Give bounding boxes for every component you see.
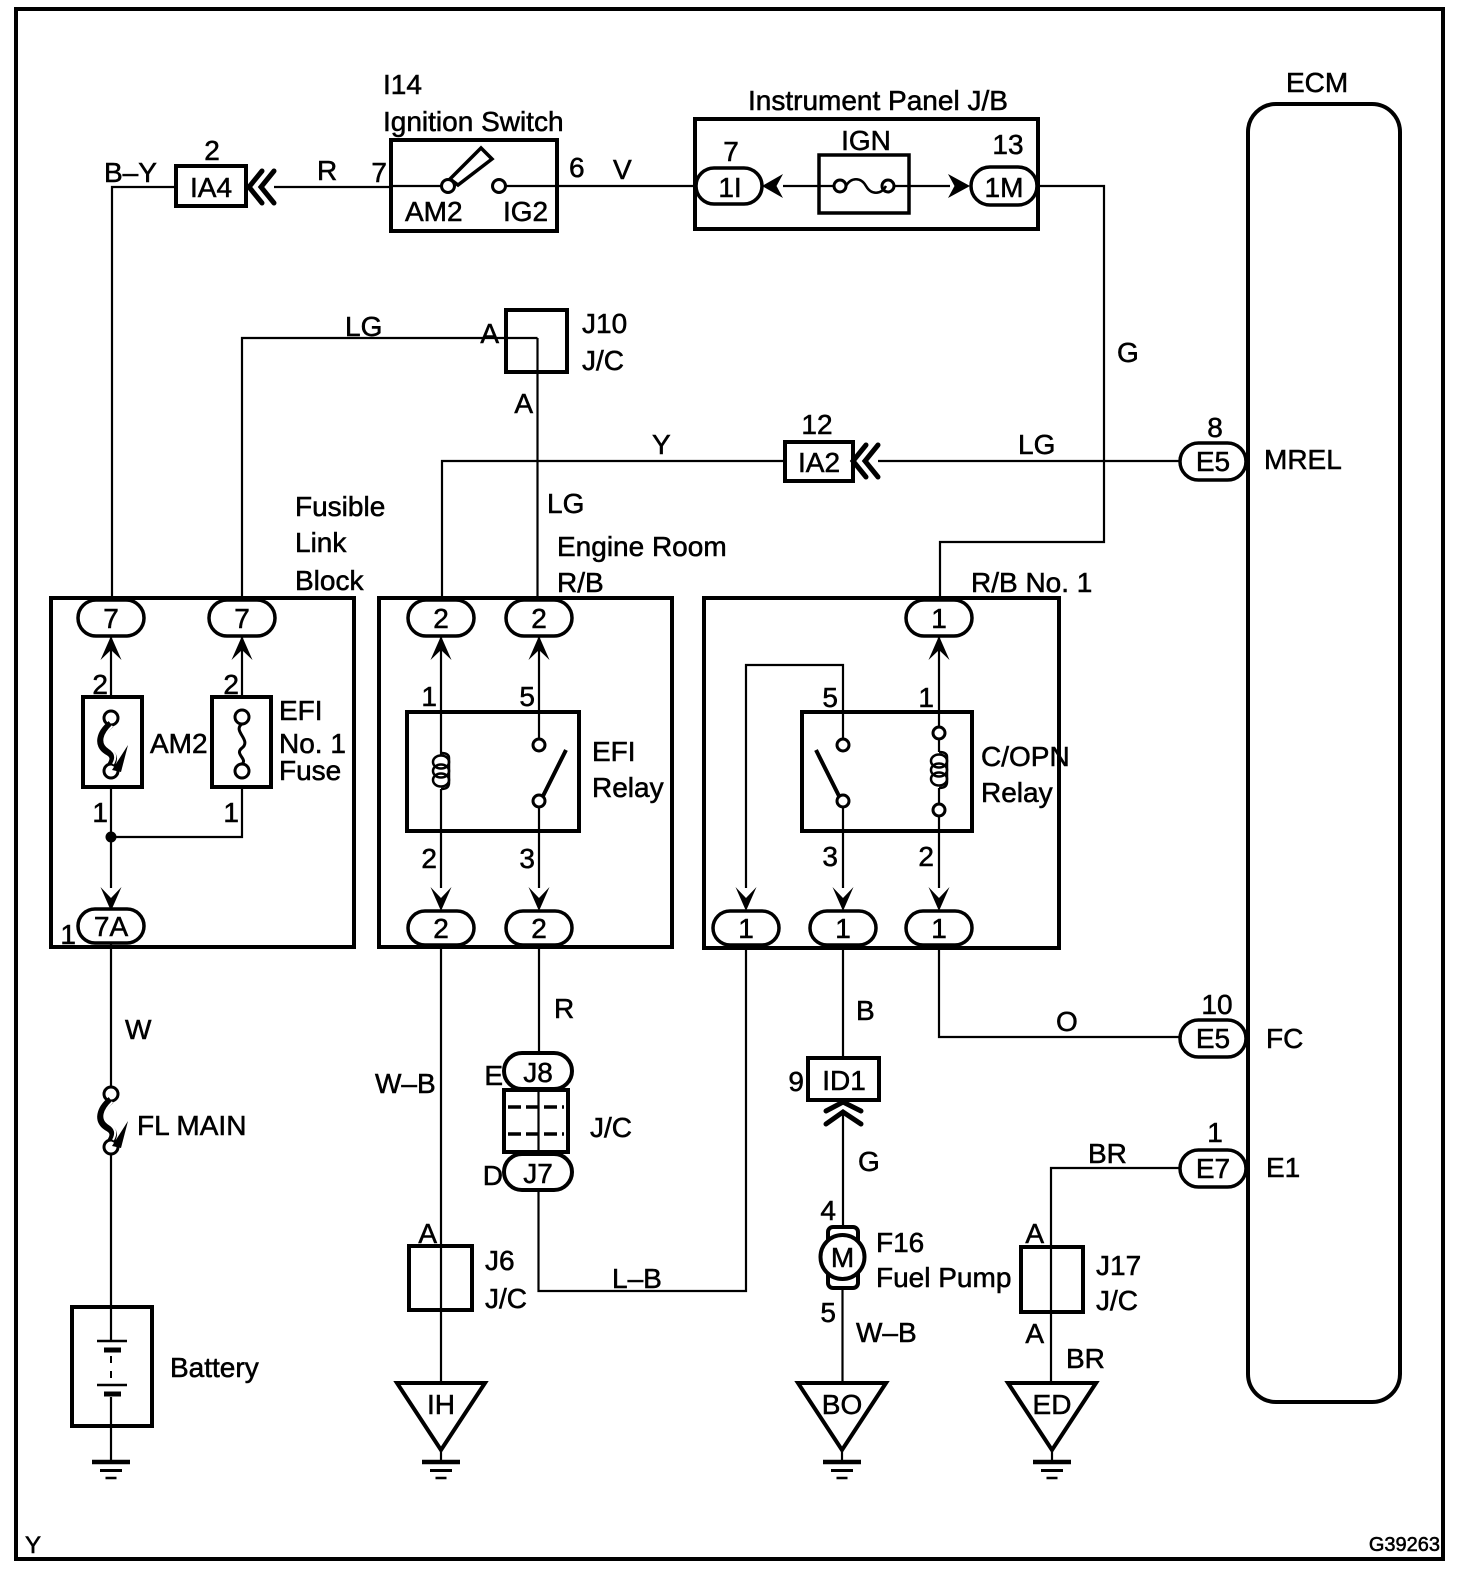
svg-text:2: 2 <box>421 843 437 874</box>
svg-text:G39263: G39263 <box>1369 1534 1440 1556</box>
male arrow below oval 2 right <box>529 636 550 660</box>
junction connector J17 J/C <box>1021 1247 1083 1312</box>
svg-text:W: W <box>125 1014 152 1045</box>
svg-text:R/B No. 1: R/B No. 1 <box>971 567 1092 598</box>
svg-text:A: A <box>514 388 533 419</box>
female connector chevrons below ID1 <box>826 1102 861 1124</box>
svg-text:J/C: J/C <box>485 1283 527 1314</box>
ground point ED <box>1008 1383 1096 1478</box>
ignition switch I14 <box>391 140 557 231</box>
svg-text:1: 1 <box>92 797 108 828</box>
svg-text:3: 3 <box>519 843 535 874</box>
svg-text:G: G <box>858 1146 880 1177</box>
svg-text:12: 12 <box>801 409 832 440</box>
wire O from R/B No.1 to ECM pin FC <box>939 945 1180 1037</box>
fusible link block box <box>51 598 354 947</box>
svg-text:A: A <box>480 318 499 349</box>
male connector arrow at 1M <box>948 174 970 198</box>
wire from oval 1 to C/OPN relay coil <box>938 636 940 727</box>
svg-text:LG: LG <box>1018 429 1055 460</box>
svg-text:J8: J8 <box>523 1057 553 1088</box>
svg-text:C/OPN: C/OPN <box>981 741 1070 772</box>
svg-text:6: 6 <box>569 152 585 183</box>
svg-text:V: V <box>613 154 632 185</box>
label J10 J/C <box>582 308 627 376</box>
svg-text:BR: BR <box>1066 1343 1105 1374</box>
junction connector J7 <box>504 1154 572 1190</box>
svg-text:FC: FC <box>1266 1023 1303 1054</box>
wire V from ignition switch to instrument panel J/B <box>557 185 696 187</box>
relay C/OPN <box>802 712 972 831</box>
svg-text:E5: E5 <box>1196 446 1230 477</box>
svg-text:7: 7 <box>371 157 387 188</box>
svg-text:I14: I14 <box>383 69 422 100</box>
svg-text:Link: Link <box>295 527 347 558</box>
svg-text:IH: IH <box>427 1389 455 1420</box>
svg-text:Relay: Relay <box>592 772 664 803</box>
svg-text:5: 5 <box>519 681 535 712</box>
junction block J/C between J8 and J7 <box>504 1090 568 1152</box>
connector IA2 <box>785 442 853 481</box>
ground symbol below battery <box>92 1462 130 1478</box>
svg-text:W–B: W–B <box>856 1317 917 1348</box>
male arrow above oval 7A <box>101 887 122 911</box>
svg-text:J10: J10 <box>582 308 627 339</box>
wire R from engine room R/B to J8 <box>538 945 540 1054</box>
engine room R/B box <box>379 598 672 947</box>
svg-text:Fuel Pump: Fuel Pump <box>876 1262 1011 1293</box>
svg-text:1: 1 <box>1207 1117 1223 1148</box>
svg-text:M: M <box>831 1242 854 1273</box>
ECM module U1 <box>1248 104 1400 1402</box>
wire B-Y from IA4 down to fusible link block pin 7 <box>112 187 176 600</box>
svg-text:1M: 1M <box>985 172 1024 203</box>
wire LG from J10 down to engine room R/B pin 2 <box>536 338 538 600</box>
svg-text:J/C: J/C <box>1096 1285 1138 1316</box>
svg-text:MREL: MREL <box>1264 444 1342 475</box>
wire W from 7A to FL MAIN <box>110 943 112 1087</box>
label I14 Ignition Switch <box>383 69 564 137</box>
wire from oval 7 to EFI fuse <box>241 636 243 697</box>
svg-text:1: 1 <box>931 603 947 634</box>
connector oval 2 bottom left <box>408 911 474 945</box>
svg-text:Block: Block <box>295 565 364 596</box>
battery BT1 <box>72 1307 152 1426</box>
male arrow below oval 2 left <box>431 636 452 660</box>
svg-text:1: 1 <box>738 913 754 944</box>
wire from C/OPN coil down <box>938 816 940 888</box>
svg-text:EFI: EFI <box>279 695 323 726</box>
svg-text:Battery: Battery <box>170 1352 259 1383</box>
svg-text:IG2: IG2 <box>503 196 548 227</box>
junction connector J10 J/C <box>506 310 567 372</box>
svg-text:8: 8 <box>1207 412 1223 443</box>
wire from EFI fuse joining AM2 wire <box>111 787 242 837</box>
svg-text:1: 1 <box>60 919 76 950</box>
connector oval 2 bottom right <box>506 911 572 945</box>
svg-text:7: 7 <box>234 603 250 634</box>
svg-text:2: 2 <box>204 135 220 166</box>
fuse EFI No. 1 <box>212 697 271 787</box>
svg-text:L–B: L–B <box>612 1263 662 1294</box>
wire from C/OPN switch down <box>842 807 844 888</box>
svg-text:1: 1 <box>223 797 239 828</box>
junction connector J8 <box>504 1053 572 1089</box>
svg-text:ECM: ECM <box>1286 67 1348 98</box>
motor F16 fuel pump <box>821 1227 865 1288</box>
svg-text:E: E <box>484 1060 503 1091</box>
wire to EFI relay coil <box>440 636 442 755</box>
connector oval 1 bottom middle <box>810 911 876 945</box>
wire from C/OPN relay pin 5 over to bottom left oval 1 <box>746 665 843 888</box>
label Engine Room R/B <box>557 531 727 598</box>
svg-text:Ignition Switch: Ignition Switch <box>383 106 564 137</box>
svg-text:LG: LG <box>547 488 584 519</box>
wire from EFI relay coil down <box>440 789 442 888</box>
svg-text:J7: J7 <box>523 1158 553 1189</box>
svg-text:Y: Y <box>25 1532 41 1559</box>
svg-text:ED: ED <box>1033 1389 1072 1420</box>
connector oval 1 bottom left <box>713 911 779 945</box>
label EFI No. 1 Fuse <box>279 695 346 786</box>
connector E7 pin E1 on ECM <box>1180 1150 1246 1187</box>
connector oval 7 above AM2 <box>78 600 144 636</box>
male connector arrow at 1I <box>762 174 783 198</box>
svg-text:B–Y: B–Y <box>104 157 157 188</box>
wire from EFI relay switch down <box>538 807 540 888</box>
male arrow below oval 1 top <box>929 636 950 660</box>
svg-text:O: O <box>1056 1006 1078 1037</box>
svg-text:1: 1 <box>421 681 437 712</box>
wire from oval 7 to fuse AM2 <box>110 636 112 697</box>
svg-text:2: 2 <box>433 913 449 944</box>
svg-text:7A: 7A <box>94 911 129 942</box>
svg-text:AM2: AM2 <box>405 196 463 227</box>
wire G from ID1 to fuel pump <box>842 1113 844 1227</box>
label J17 J/C <box>1096 1250 1141 1316</box>
label EFI Relay <box>592 736 664 803</box>
svg-text:IA2: IA2 <box>798 447 840 478</box>
female connector chevrons at IA4 <box>249 171 274 203</box>
svg-text:E5: E5 <box>1196 1023 1230 1054</box>
svg-text:1I: 1I <box>718 172 741 203</box>
svg-text:Instrument Panel J/B: Instrument Panel J/B <box>748 85 1008 116</box>
wire G from 1M to R/B No.1 pin 1 <box>940 186 1104 600</box>
wire from IGN fuse to 1M <box>894 185 950 187</box>
label F16 Fuel Pump <box>876 1227 1011 1293</box>
svg-text:BR: BR <box>1088 1138 1127 1169</box>
svg-text:FL MAIN: FL MAIN <box>137 1110 246 1141</box>
svg-text:2: 2 <box>918 841 934 872</box>
svg-text:W–B: W–B <box>375 1068 436 1099</box>
svg-text:J17: J17 <box>1096 1250 1141 1281</box>
svg-text:2: 2 <box>531 913 547 944</box>
svg-text:1: 1 <box>918 682 934 713</box>
svg-text:7: 7 <box>723 136 739 167</box>
junction connector J6 J/C <box>409 1246 472 1310</box>
wire W-B from fuel pump to ground BO <box>841 1286 843 1383</box>
svg-text:R/B: R/B <box>557 567 604 598</box>
connector oval 2 top right <box>506 600 572 636</box>
wire LG from junction J10 to fusible link block pin 7 <box>242 338 538 600</box>
svg-text:9: 9 <box>788 1066 804 1097</box>
ground point IH <box>397 1383 485 1478</box>
wire to EFI relay switch <box>538 636 540 739</box>
svg-text:J/C: J/C <box>582 345 624 376</box>
svg-text:E7: E7 <box>1196 1153 1230 1184</box>
connector oval 2 top left <box>408 600 474 636</box>
male arrow below oval 7 (EFI side) <box>232 636 253 660</box>
R/B No.1 box <box>704 598 1059 948</box>
svg-text:5: 5 <box>820 1297 836 1328</box>
wire from J17 to ground ED <box>1050 1312 1052 1383</box>
svg-text:Fuse: Fuse <box>279 755 341 786</box>
connector oval 7 above EFI fuse <box>209 600 275 636</box>
male arrow above bottom oval 2 left <box>431 887 452 911</box>
svg-text:BO: BO <box>822 1389 862 1420</box>
fusible link FL MAIN <box>101 1087 128 1154</box>
wire from FL MAIN to battery <box>110 1154 112 1307</box>
svg-text:D: D <box>483 1160 503 1191</box>
svg-text:IGN: IGN <box>841 125 891 156</box>
wire from J6 to ground IH <box>440 1310 442 1383</box>
connector oval 7A <box>78 909 144 943</box>
wire BR from ECM pin E1 to J17 <box>1051 1168 1180 1247</box>
svg-text:4: 4 <box>820 1195 836 1226</box>
male arrow below oval 7 (AM2 side) <box>101 636 122 660</box>
svg-text:R: R <box>554 993 574 1024</box>
connector IA4 <box>176 166 246 206</box>
wire from 1I to IGN fuse <box>783 185 834 187</box>
connector oval 1 bottom right <box>906 911 972 945</box>
svg-text:F16: F16 <box>876 1227 924 1258</box>
male arrow above bottom oval 2 right <box>529 887 550 911</box>
wire B from R/B No.1 to ID1 <box>842 945 844 1058</box>
male arrow above bottom oval 1 right <box>929 887 950 911</box>
wire from AM2 fuse to connector 7A <box>110 787 112 888</box>
svg-text:R: R <box>317 155 337 186</box>
svg-text:2: 2 <box>433 603 449 634</box>
svg-text:1: 1 <box>835 913 851 944</box>
svg-text:3: 3 <box>822 841 838 872</box>
svg-text:13: 13 <box>992 129 1023 160</box>
svg-text:2: 2 <box>531 603 547 634</box>
svg-text:7: 7 <box>103 603 119 634</box>
connector ID1 <box>808 1058 879 1100</box>
svg-text:E1: E1 <box>1266 1152 1300 1183</box>
svg-text:5: 5 <box>822 682 838 713</box>
ground point BO <box>798 1383 886 1478</box>
svg-text:Fusible: Fusible <box>295 491 385 522</box>
svg-text:ID1: ID1 <box>822 1065 866 1096</box>
wire LG from IA2 to ECM pin MREL <box>878 460 1180 462</box>
svg-text:G: G <box>1117 337 1139 368</box>
svg-text:Y: Y <box>652 429 671 460</box>
svg-text:B: B <box>856 995 875 1026</box>
wire from battery to ground <box>110 1426 112 1462</box>
svg-text:J6: J6 <box>485 1245 515 1276</box>
label Fusible Link Block <box>295 491 385 596</box>
svg-text:Relay: Relay <box>981 777 1053 808</box>
connector E5 pin FC on ECM <box>1180 1020 1246 1057</box>
connector 1I <box>696 168 762 204</box>
instrument panel J/B box <box>695 119 1038 229</box>
connector 1M <box>971 167 1037 205</box>
svg-text:AM2: AM2 <box>150 728 208 759</box>
wire Y from IA2 to engine room R/B pin 2 <box>442 461 785 600</box>
connector E5 pin MREL on ECM <box>1180 443 1246 480</box>
female connector chevrons at IA2 <box>853 445 878 477</box>
svg-text:IA4: IA4 <box>190 172 232 203</box>
svg-text:Engine Room: Engine Room <box>557 531 727 562</box>
fusible link AM2 <box>83 697 142 787</box>
svg-text:A: A <box>1025 1318 1044 1349</box>
male arrow above bottom oval 1 left <box>736 887 757 911</box>
wire W-B from engine room R/B to J6 <box>440 945 442 1246</box>
svg-text:A: A <box>1025 1218 1044 1249</box>
label J6 J/C <box>485 1245 527 1314</box>
svg-text:J/C: J/C <box>590 1112 632 1143</box>
svg-text:LG: LG <box>345 311 382 342</box>
male arrow above bottom oval 1 middle <box>833 887 854 911</box>
relay EFI <box>407 712 579 831</box>
junction dot node <box>106 832 117 843</box>
svg-text:1: 1 <box>931 913 947 944</box>
wire L-B from J7 to R/B No.1 bottom left oval 1 <box>539 945 747 1291</box>
svg-text:10: 10 <box>1201 989 1232 1020</box>
connector oval 1 top <box>906 600 972 636</box>
svg-text:EFI: EFI <box>592 736 636 767</box>
label C/OPN Relay <box>981 741 1070 808</box>
fuse IGN <box>819 155 909 213</box>
wire R from IA4 to ignition switch <box>274 186 391 188</box>
